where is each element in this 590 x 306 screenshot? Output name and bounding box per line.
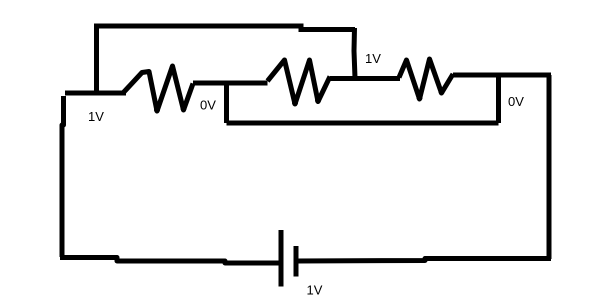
battery B1 left plate (long) [279, 230, 284, 287]
svg-text:0V: 0V [508, 94, 524, 109]
svg-text:1V: 1V [307, 283, 323, 298]
wire top-left vertical (x=96 from top rail down to node 1V) [94, 24, 99, 94]
node A horizontal (1V node, left) [65, 91, 126, 96]
svg-text:0V: 0V [200, 98, 216, 113]
wire top horizontal rail [94, 26, 355, 30]
svg-text:1V: 1V [88, 109, 104, 124]
wire R3 to right rail (0V node) [453, 73, 551, 78]
wire bottom right (battery negative side) [297, 259, 552, 262]
svg-text:1V: 1V [365, 51, 381, 66]
resistor R2 [268, 60, 331, 106]
resistor R1 [123, 66, 194, 113]
battery B1 right plate (short) [294, 246, 299, 277]
wire top-right vertical drop (x=354 down to R2-R3 junction) [354, 28, 355, 78]
wire bottom left (battery positive side) [60, 258, 281, 264]
wire inner box bottom horizontal [227, 121, 499, 126]
wire R1 to R2 (0V node) [193, 81, 268, 86]
wire left outer vertical [62, 96, 64, 257]
wire right outer vertical [547, 75, 552, 259]
resistor R3 [399, 59, 453, 101]
wire R2 to R3 (1V node middle) [330, 76, 400, 81]
wire inner box right vertical [496, 77, 501, 123]
wire inner box left vertical [224, 83, 229, 123]
